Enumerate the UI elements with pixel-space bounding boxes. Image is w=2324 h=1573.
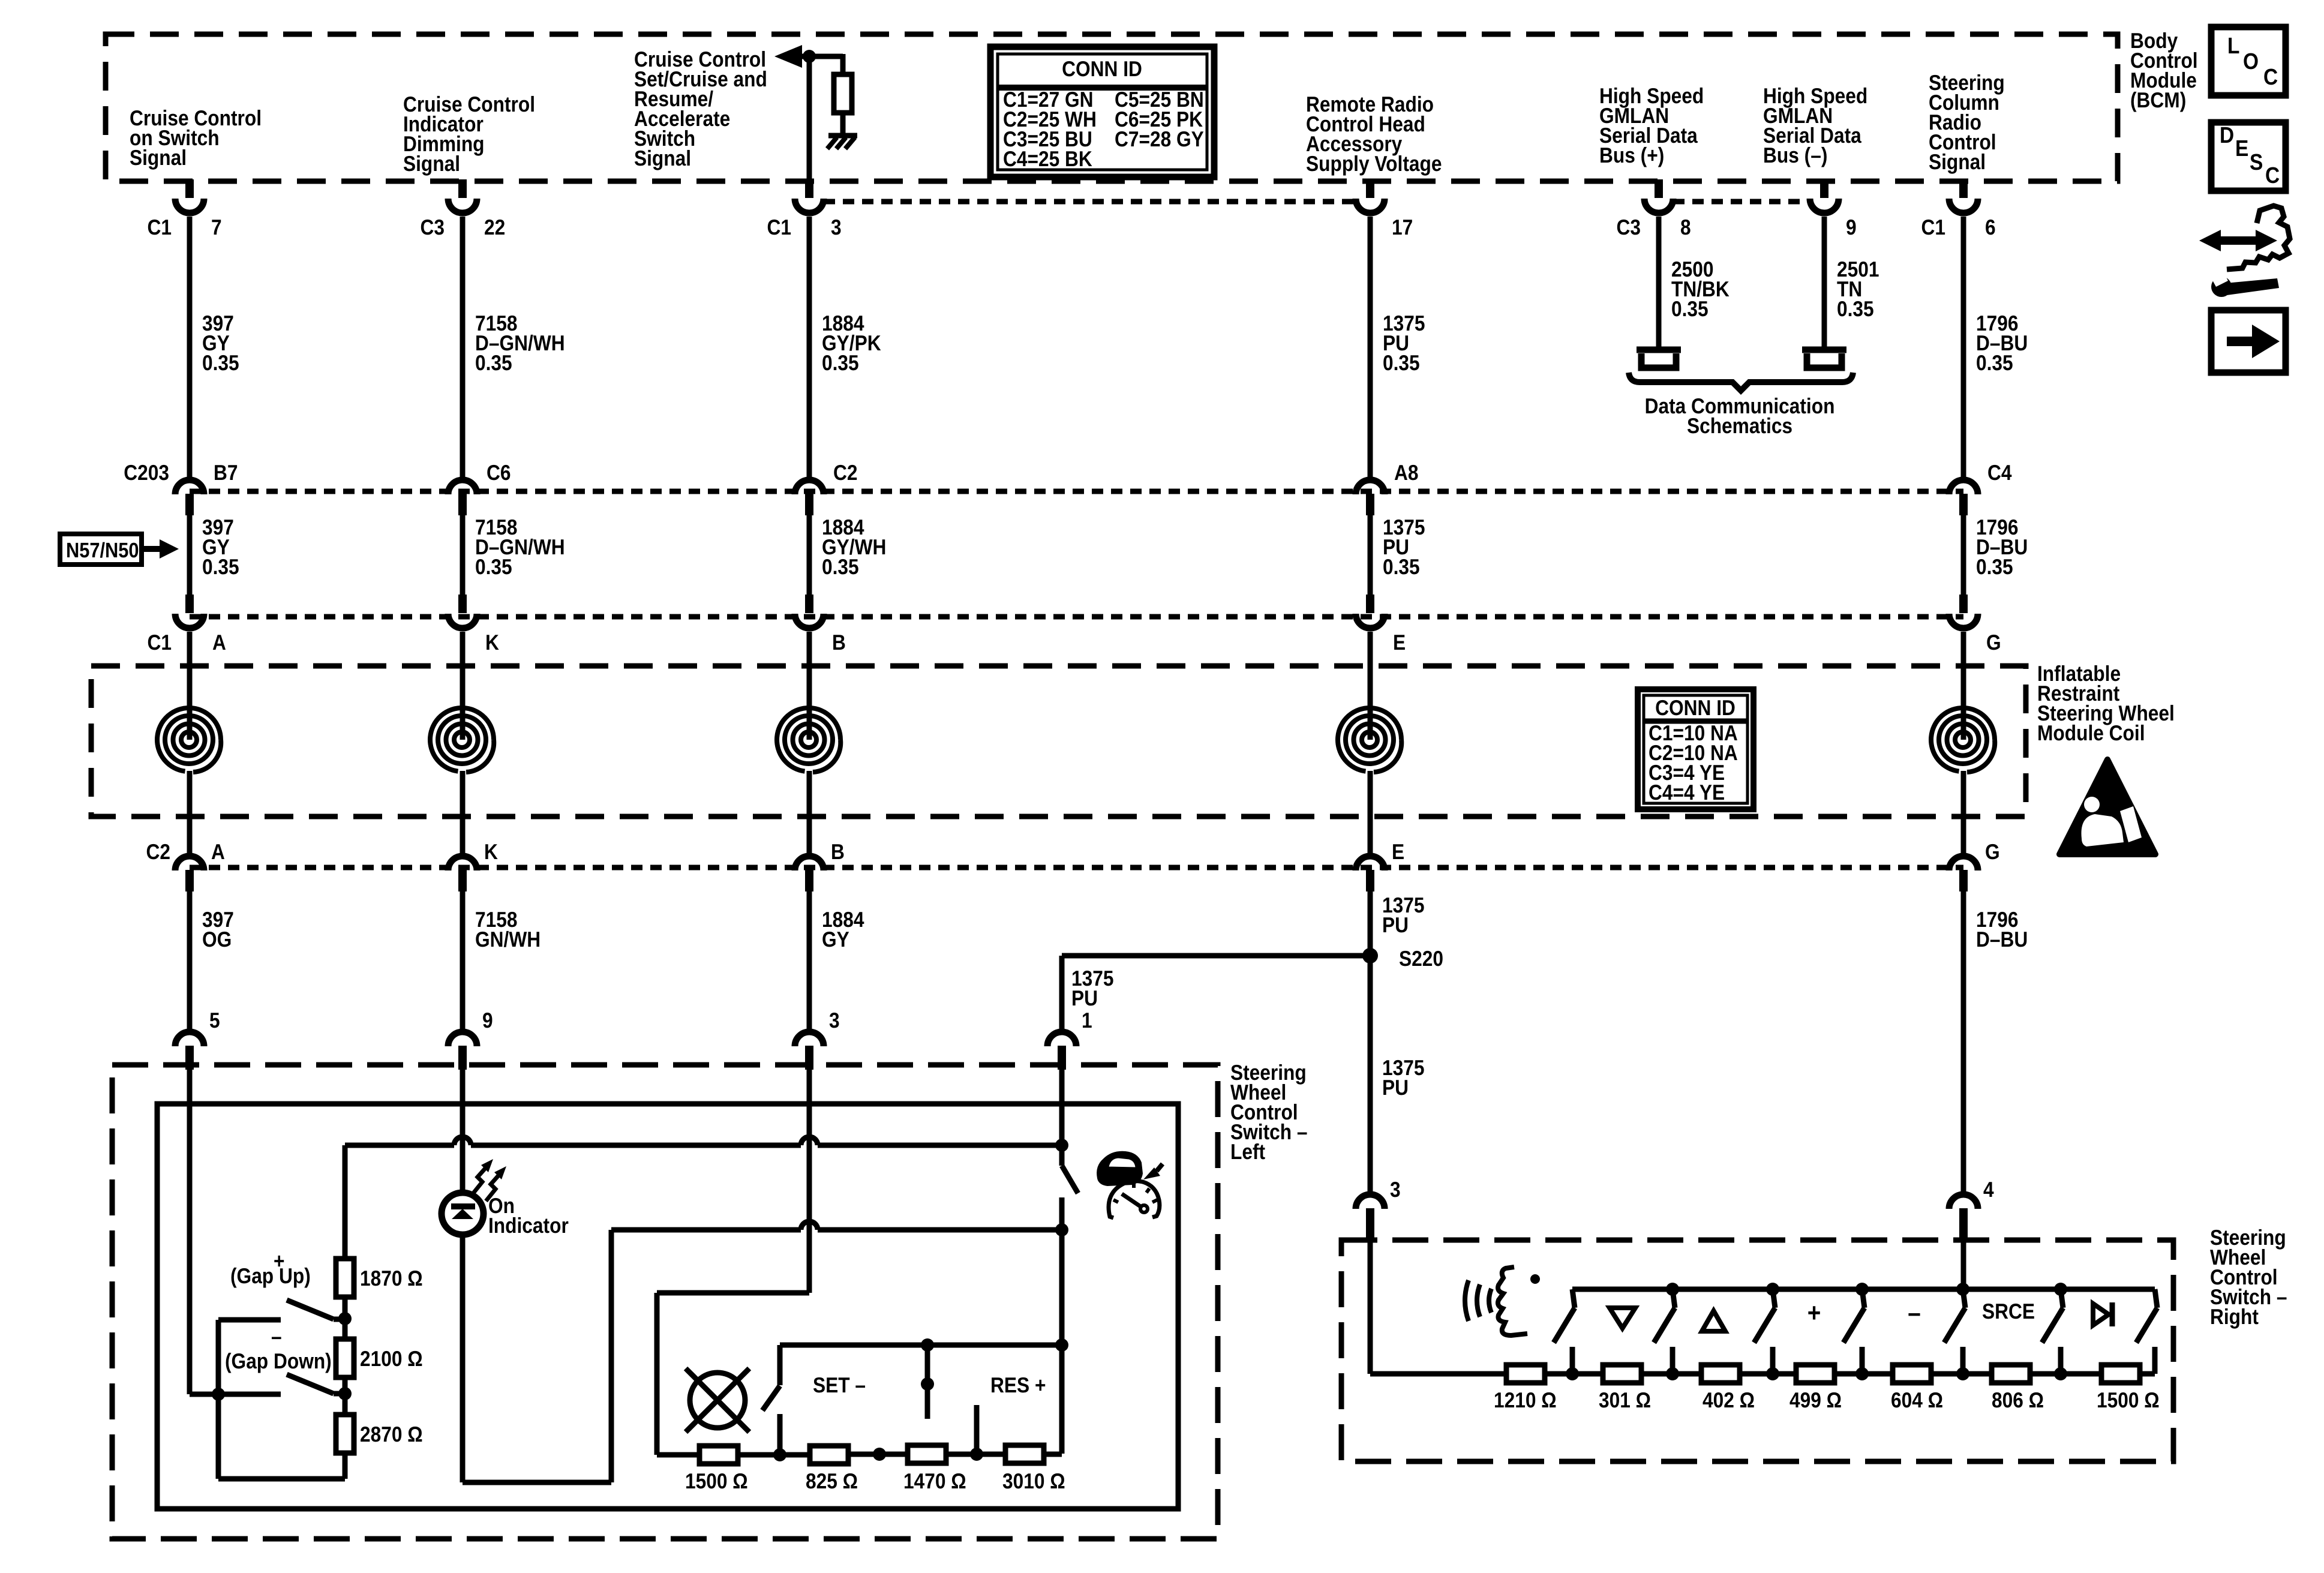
svg-text:9: 9 bbox=[1846, 215, 1857, 239]
connector row4 at x=1349 pin B bbox=[795, 839, 845, 891]
BCM label Remote Radio Control Head Accessory Supply Voltage bbox=[1306, 92, 1442, 176]
svg-text:PU: PU bbox=[1382, 912, 1409, 937]
CONN ID table (BCM) bbox=[990, 47, 1214, 177]
Steering Wheel Control Switch Left dashed box bbox=[112, 1065, 1218, 1539]
steering wheel coil spiral x=2284 bbox=[1338, 632, 1401, 853]
ground bbox=[827, 136, 857, 149]
gap up switch bbox=[218, 1300, 345, 1394]
svg-text:C3: C3 bbox=[1616, 215, 1641, 239]
branch wire S220 to pin1 bbox=[1062, 956, 1370, 1029]
label 2870 ohm bbox=[360, 1422, 423, 1446]
resistor 2100 ohm bbox=[336, 1339, 354, 1377]
label 2100 ohm bbox=[360, 1346, 423, 1371]
svg-text:806 Ω: 806 Ω bbox=[1992, 1388, 2044, 1412]
svg-text:GN/WH: GN/WH bbox=[475, 927, 541, 951]
arrow pointing to Cruise Control text bbox=[774, 45, 809, 68]
dotted harness line C203 row bbox=[190, 489, 1963, 494]
junction top bus right bbox=[1055, 1338, 1068, 1352]
svg-text:C203: C203 bbox=[124, 460, 169, 485]
wire segment C203 to C1 row x=3273 bbox=[1961, 515, 1966, 595]
svg-text:–: – bbox=[1908, 1298, 1921, 1328]
svg-text:O: O bbox=[2243, 49, 2259, 74]
wire LED down and to line C riser bbox=[463, 1230, 611, 1482]
N57/N50 callout box bbox=[60, 534, 142, 565]
splice S220 bbox=[1362, 946, 1443, 971]
svg-text:Indicator: Indicator bbox=[488, 1213, 569, 1238]
svg-text:D: D bbox=[2220, 123, 2234, 148]
off-page terminator x=3041 bbox=[1802, 350, 1846, 368]
wire label 1796 D-BU seg3 bbox=[1976, 907, 2028, 951]
svg-text:301 Ω: 301 Ω bbox=[1599, 1388, 1651, 1412]
svg-text:Left: Left bbox=[1230, 1139, 1265, 1164]
off-page terminator x=2765 bbox=[1637, 350, 1681, 368]
svg-text:1: 1 bbox=[1082, 1008, 1092, 1032]
wire label 1375 PU bbox=[1383, 311, 1425, 375]
wire segment row4 to switch x=771 bbox=[460, 891, 466, 1029]
cruise on/off switch blade bbox=[1062, 1145, 1078, 1193]
steering wheel coil spiral x=316 bbox=[157, 632, 221, 853]
wire segment row4 to switch x=316 bbox=[187, 891, 193, 1029]
res switch lower contact bbox=[974, 1405, 980, 1454]
svg-text:+: + bbox=[1807, 1298, 1821, 1328]
dotted connector line row4 bbox=[190, 865, 1963, 870]
svg-text:6: 6 bbox=[1985, 215, 1996, 239]
wire label 1796 D–BU bbox=[1976, 311, 2028, 375]
wire segment C203 to C1 row x=316 bbox=[187, 515, 193, 595]
set switch lower contact bbox=[777, 1414, 783, 1455]
junction line B at switch bbox=[1055, 1139, 1068, 1152]
switch blade 4 right box bbox=[1843, 1283, 1869, 1380]
resistor 1500 Ω right box bbox=[2101, 1365, 2140, 1383]
connector row3 at x=771 pin K bbox=[448, 595, 499, 655]
svg-text:825 Ω: 825 Ω bbox=[806, 1469, 858, 1493]
svg-text:2100 Ω: 2100 Ω bbox=[360, 1346, 423, 1371]
svg-text:8: 8 bbox=[1680, 215, 1691, 239]
svg-text:Right: Right bbox=[2210, 1304, 2259, 1329]
svg-text:C1: C1 bbox=[147, 630, 172, 655]
resistor 825 ohm bbox=[810, 1446, 848, 1464]
switch bottom bus right box bbox=[1487, 1371, 2155, 1377]
svg-text:C4=25 BK: C4=25 BK bbox=[1003, 146, 1092, 171]
connector row1 at x=1349 pin 3 bbox=[767, 179, 841, 239]
wire label 7158 D–GN/WH bbox=[475, 311, 565, 375]
LOC icon box bbox=[2211, 27, 2286, 95]
svg-text:0.35: 0.35 bbox=[475, 554, 512, 579]
wire pin3 to resistor ladder bbox=[1370, 1227, 1487, 1374]
label Data Communication Schematics bbox=[1645, 394, 1835, 438]
wire inside BCM to C1 pin 3 bbox=[807, 56, 812, 181]
switch blade 6 right box bbox=[2042, 1283, 2067, 1380]
CONN ID table (coil) bbox=[1638, 689, 1753, 809]
svg-text:C2: C2 bbox=[833, 460, 858, 485]
svg-text:C3: C3 bbox=[420, 215, 445, 239]
wire 1870 to 2100 bbox=[343, 1297, 348, 1339]
svg-text:(BCM): (BCM) bbox=[2130, 88, 2186, 112]
wire to pull-up resistor bbox=[809, 54, 843, 74]
label 806 Ω bbox=[1992, 1388, 2044, 1412]
svg-text:Signal: Signal bbox=[634, 146, 691, 170]
symbol seek down bbox=[1610, 1308, 1635, 1328]
GMLAN wire x=2765 bbox=[1656, 217, 1662, 350]
svg-text:9: 9 bbox=[482, 1008, 493, 1032]
Body Control Module (BCM) dashed box bbox=[106, 34, 2118, 181]
svg-text:0.35: 0.35 bbox=[1383, 554, 1420, 579]
label Steering Wheel Control Switch Right bbox=[2210, 1225, 2287, 1329]
svg-text:A: A bbox=[211, 839, 225, 864]
svg-text:5: 5 bbox=[209, 1008, 220, 1032]
junction gap down bbox=[338, 1387, 352, 1400]
label 1210 Ω bbox=[1494, 1388, 1557, 1412]
switch top bus right box bbox=[1572, 1287, 2155, 1292]
svg-text:D–BU: D–BU bbox=[1976, 927, 2028, 951]
svg-text:GY: GY bbox=[822, 927, 849, 951]
svg-text:0.35: 0.35 bbox=[822, 554, 859, 579]
resistor 499 Ω right box bbox=[1796, 1365, 1834, 1383]
cruise control icon speedometer bbox=[1109, 1181, 1160, 1218]
svg-text:S220: S220 bbox=[1399, 946, 1443, 971]
svg-text:RES +: RES + bbox=[990, 1373, 1046, 1397]
wire pin5 into box bbox=[190, 1067, 218, 1394]
wire 1500 to set lower bbox=[737, 1452, 780, 1458]
svg-text:C7=28 GY: C7=28 GY bbox=[1115, 127, 1204, 151]
svg-text:7: 7 bbox=[211, 215, 222, 239]
svg-text:A: A bbox=[212, 630, 226, 655]
svg-text:0.35: 0.35 bbox=[1837, 296, 1874, 321]
svg-text:0.35: 0.35 bbox=[1383, 350, 1420, 375]
centre common stub bbox=[925, 1345, 930, 1419]
svg-text:C2: C2 bbox=[146, 839, 170, 864]
junction line C at switch bbox=[1055, 1223, 1068, 1236]
wire label 397 GY bbox=[202, 311, 239, 375]
svg-text:PU: PU bbox=[1071, 986, 1098, 1010]
wire label 1796 D–BU seg2 bbox=[1976, 515, 2028, 579]
svg-text:3: 3 bbox=[829, 1008, 840, 1032]
svg-text:SET –: SET – bbox=[813, 1373, 866, 1397]
wire 1796 D-BU to right switch bbox=[1961, 891, 1966, 1191]
steering wheel coil spiral x=771 bbox=[430, 632, 494, 853]
junction res bus 1 bbox=[873, 1448, 886, 1461]
svg-text:0.35: 0.35 bbox=[202, 554, 239, 579]
connector row2 at x=771 pin C6 bbox=[448, 460, 511, 515]
wire label 7158 D–GN/WH seg2 bbox=[475, 515, 565, 579]
label 1500 Ω bbox=[2097, 1388, 2160, 1412]
label 1500 ohm bbox=[685, 1469, 748, 1493]
label 825 ohm bbox=[806, 1469, 858, 1493]
svg-text:3010 Ω: 3010 Ω bbox=[1002, 1469, 1065, 1493]
connector row2 at x=1349 pin C2 bbox=[795, 460, 858, 515]
connector row1 at x=3273 pin 6 bbox=[1921, 179, 1995, 239]
connector row1 at x=771 pin 22 bbox=[420, 179, 505, 239]
resistor 1210 Ω right box bbox=[1506, 1365, 1545, 1383]
resistor 2870 ohm bbox=[336, 1415, 354, 1453]
label 1470 ohm bbox=[903, 1469, 966, 1493]
label 402 Ω bbox=[1703, 1388, 1755, 1412]
svg-text:E: E bbox=[1393, 630, 1406, 655]
svg-text:3: 3 bbox=[831, 215, 842, 239]
svg-text:C6: C6 bbox=[487, 460, 511, 485]
wire S220 down to right box pin 3 bbox=[1368, 956, 1373, 1191]
arrow and wrench icon bbox=[2199, 206, 2290, 297]
junction line B at chain bbox=[0, 0, 1, 1]
resistor inside BCM bbox=[834, 74, 852, 113]
wire segment BCM to C203 row x=1349 bbox=[807, 217, 812, 477]
svg-text:E: E bbox=[2235, 136, 2248, 161]
wire label 1375 PU above S220 bbox=[1382, 893, 1424, 937]
svg-text:1500 Ω: 1500 Ω bbox=[2097, 1388, 2160, 1412]
switch assembly box left bbox=[157, 1104, 1178, 1509]
wire 3010 to riser bbox=[1044, 1452, 1062, 1457]
switch top bus bbox=[780, 1343, 1062, 1348]
svg-text:0.35: 0.35 bbox=[822, 350, 859, 375]
connector row1 at x=2765 pin 8 bbox=[1616, 179, 1691, 239]
svg-text:0.35: 0.35 bbox=[475, 350, 512, 375]
svg-text:–: – bbox=[271, 1324, 282, 1349]
svg-text:(Gap Down): (Gap Down) bbox=[225, 1349, 332, 1373]
wire line C to cruise switch bbox=[611, 1221, 1062, 1230]
wire segment BCM to C203 row x=2284 bbox=[1368, 217, 1373, 477]
svg-text:OG: OG bbox=[202, 927, 232, 951]
wire segment row4 to switch x=1349 bbox=[807, 891, 812, 1029]
svg-text:A8: A8 bbox=[1394, 460, 1419, 485]
connector row3 at x=3273 pin G bbox=[1949, 595, 2001, 655]
symbol volume minus bbox=[1908, 1298, 1921, 1328]
svg-text:G: G bbox=[1986, 630, 2001, 655]
svg-text:CONN ID: CONN ID bbox=[1062, 56, 1142, 81]
wire segment C203 to C1 row x=771 bbox=[460, 515, 466, 595]
label Steering Wheel Control Switch Left bbox=[1230, 1060, 1308, 1164]
resistor 1470 ohm bbox=[908, 1445, 946, 1463]
switch blade 3 right box bbox=[1754, 1283, 1779, 1380]
BCM label High Speed GMLAN Serial Data Bus (-) bbox=[1763, 83, 1867, 167]
wire line B resistor chain to switch bbox=[345, 1137, 1062, 1145]
switch blade 5 right box bbox=[1944, 1283, 1969, 1380]
wire 1375 PU from row4 to S220 bbox=[1368, 891, 1373, 956]
switch blade 7 right box bbox=[2136, 1289, 2157, 1374]
svg-text:C4: C4 bbox=[1987, 460, 2012, 485]
connector row3 at x=1349 pin B bbox=[795, 595, 846, 655]
svg-text:C: C bbox=[2265, 163, 2280, 188]
GMLAN wire x=3041 bbox=[1822, 217, 1827, 350]
wire 825-1470 bus bbox=[848, 1452, 907, 1457]
label RES + bbox=[990, 1373, 1046, 1397]
N57/N50 arrow bbox=[142, 539, 179, 559]
BCM label Cruise Control on Switch Signal bbox=[130, 106, 262, 170]
svg-text:1500 Ω: 1500 Ω bbox=[685, 1469, 748, 1493]
label 604 Ω bbox=[1891, 1388, 1943, 1412]
svg-text:N57/N50: N57/N50 bbox=[66, 539, 139, 562]
wire label 7158 GN/WH seg3 bbox=[475, 907, 541, 951]
wire segment C203 to C1 row x=1349 bbox=[807, 515, 812, 595]
svg-text:C4=4 YE: C4=4 YE bbox=[1649, 780, 1725, 804]
connector row3 at x=316 pin A bbox=[147, 595, 226, 655]
svg-text:4: 4 bbox=[1983, 1177, 1994, 1202]
svg-text:1210 Ω: 1210 Ω bbox=[1494, 1388, 1557, 1412]
svg-text:K: K bbox=[484, 839, 498, 864]
svg-text:0.35: 0.35 bbox=[202, 350, 239, 375]
svg-text:Supply Voltage: Supply Voltage bbox=[1306, 151, 1442, 176]
junction gap up bbox=[338, 1312, 352, 1325]
switch blade 1 right box bbox=[1554, 1289, 1579, 1380]
connector row2 at x=316 pin B7 bbox=[124, 460, 238, 515]
resistor 604 Ω right box bbox=[1893, 1365, 1931, 1383]
dotted connector line pin8 to pin9 bbox=[1673, 199, 1810, 205]
label SRCE bbox=[1982, 1299, 2035, 1323]
cruise control icon car bbox=[1097, 1152, 1163, 1185]
wire pin1 to cruise switch bbox=[1059, 1067, 1065, 1145]
svg-text:B: B bbox=[832, 630, 846, 655]
wire switch to resistor network riser bbox=[1059, 1230, 1065, 1454]
svg-text:Signal: Signal bbox=[1929, 149, 1986, 174]
wire label 2500 bbox=[1671, 257, 1730, 321]
svg-text:Bus (+): Bus (+) bbox=[1599, 143, 1664, 167]
switch blade 2 right box bbox=[1654, 1283, 1679, 1380]
connector row2 at x=3273 pin C4 bbox=[1949, 460, 2012, 515]
connector row4 at x=3273 pin G bbox=[1949, 839, 2000, 891]
wire 1500-825 bus bbox=[780, 1452, 809, 1458]
svg-text:C1: C1 bbox=[767, 215, 791, 239]
label + (Gap Up) bbox=[230, 1248, 311, 1288]
label 1870 ohm bbox=[360, 1266, 423, 1290]
svg-text:17: 17 bbox=[1392, 215, 1413, 239]
Steering Wheel Control Switch Right dashed box bbox=[1341, 1240, 2173, 1461]
svg-text:0.35: 0.35 bbox=[1976, 350, 2013, 375]
svg-text:C1: C1 bbox=[1921, 215, 1945, 239]
connector row1 at x=316 pin 7 bbox=[147, 179, 221, 239]
wire label 1375 PU below S220 bbox=[1382, 1055, 1424, 1100]
connector row4 at x=316 pin A bbox=[146, 839, 224, 891]
wire 2100 to 2870 bbox=[343, 1377, 348, 1415]
resistor 402 Ω right box bbox=[1701, 1365, 1740, 1383]
wire label 1884 GY/WH seg2 bbox=[822, 515, 886, 579]
svg-text:E: E bbox=[1392, 839, 1404, 864]
wire segment C203 to C1 row x=2284 bbox=[1368, 515, 1373, 595]
svg-text:(Gap Up): (Gap Up) bbox=[230, 1263, 311, 1288]
svg-text:L: L bbox=[2227, 34, 2239, 59]
label - (Gap Down) bbox=[225, 1324, 332, 1373]
wire segment BCM to C203 row x=3273 bbox=[1961, 217, 1966, 477]
svg-text:G: G bbox=[1985, 839, 2000, 864]
svg-text:402 Ω: 402 Ω bbox=[1703, 1388, 1755, 1412]
wire 1470-3010 bus bbox=[947, 1452, 1005, 1457]
wire label 1375 PU branch bbox=[1071, 966, 1113, 1010]
label Body Control Module (BCM) bbox=[2130, 28, 2198, 112]
connector row1 at x=3041 pin 9 bbox=[1810, 179, 1857, 239]
wire label 1884 GY seg3 bbox=[822, 907, 864, 951]
svg-text:C: C bbox=[2263, 65, 2278, 90]
svg-text:B7: B7 bbox=[214, 460, 238, 485]
connector pin 4 right switch bbox=[1949, 1177, 1994, 1241]
SRS warning triangle bbox=[2059, 760, 2155, 854]
label On Indicator bbox=[488, 1193, 569, 1238]
set switch blade bbox=[762, 1386, 780, 1410]
svg-text:Signal: Signal bbox=[130, 145, 187, 170]
resistor 301 Ω right box bbox=[1603, 1365, 1641, 1383]
label Inflatable Restraint Steering Wheel Module Coil bbox=[2037, 661, 2175, 745]
wire label 397 GY seg2 bbox=[202, 515, 239, 579]
steering wheel coil spiral x=3273 bbox=[1931, 632, 1995, 853]
resistor 1870 ohm bbox=[336, 1259, 354, 1297]
svg-text:SRCE: SRCE bbox=[1982, 1299, 2035, 1323]
illumination lamp icon bbox=[686, 1368, 749, 1432]
resistor 1500 ohm bbox=[699, 1446, 738, 1464]
BCM label High Speed GMLAN Serial Data Bus (+) bbox=[1599, 83, 1704, 167]
svg-text:Module Coil: Module Coil bbox=[2037, 721, 2145, 745]
label 301 Ω bbox=[1599, 1388, 1651, 1412]
connector row3 at x=2284 pin E bbox=[1356, 595, 1406, 655]
connector row4 at x=2284 pin E bbox=[1356, 839, 1404, 891]
symbol next track bbox=[2093, 1302, 2112, 1326]
BCM label Cruise Control Set/Cruise and Resume/Accelerate Switch Signal bbox=[634, 47, 767, 170]
voice recognition icon bbox=[1465, 1267, 1540, 1335]
connector row4 at x=771 pin K bbox=[448, 839, 498, 891]
wire label 2501 bbox=[1837, 257, 1879, 321]
cruise switch lower contact bbox=[1059, 1197, 1065, 1230]
symbol seek up bbox=[1702, 1311, 1725, 1331]
DESC icon box bbox=[2211, 122, 2286, 191]
svg-text:499 Ω: 499 Ω bbox=[1789, 1388, 1842, 1412]
junction centre stub bbox=[921, 1377, 934, 1391]
resistor 3010 ohm bbox=[1005, 1445, 1044, 1463]
wire segment BCM to C203 row x=771 bbox=[460, 217, 466, 477]
wire pin4 to switch bus bbox=[1961, 1227, 1966, 1289]
wire pin3 into box bbox=[657, 1067, 809, 1455]
BCM label Cruise Control Indicator Dimming Signal bbox=[403, 92, 535, 176]
connector row1 at x=2284 pin 17 bbox=[1356, 179, 1413, 239]
svg-text:0.35: 0.35 bbox=[1976, 554, 2013, 579]
resistor 806 Ω right box bbox=[1992, 1365, 2030, 1383]
junction res bus 2 bbox=[970, 1448, 983, 1461]
svg-text:Bus (–): Bus (–) bbox=[1763, 143, 1827, 167]
set switch upper contact bbox=[777, 1345, 783, 1385]
svg-text:0.35: 0.35 bbox=[1671, 296, 1709, 321]
svg-text:1870 Ω: 1870 Ω bbox=[360, 1266, 423, 1290]
gap down switch bbox=[218, 1374, 345, 1394]
svg-text:2870 Ω: 2870 Ω bbox=[360, 1422, 423, 1446]
wire label 1884 GY/PK bbox=[822, 311, 881, 375]
wire label 397 OG seg3 bbox=[202, 907, 234, 951]
svg-text:CONN ID: CONN ID bbox=[1655, 695, 1736, 720]
wire label 1375 PU seg2 bbox=[1383, 515, 1425, 579]
junction top bus centre bbox=[921, 1338, 934, 1352]
svg-text:PU: PU bbox=[1382, 1075, 1409, 1100]
node junction on set/cruise signal bbox=[803, 50, 816, 63]
svg-text:Schematics: Schematics bbox=[1687, 413, 1792, 438]
BCM label Steering Column Radio Control Signal bbox=[1929, 70, 2005, 174]
svg-text:22: 22 bbox=[484, 215, 505, 239]
junction set lower bbox=[773, 1448, 786, 1461]
gap chain bottom return bbox=[218, 1394, 345, 1479]
On Indicator LED bbox=[442, 1159, 506, 1235]
Inflatable Restraint Steering Wheel Module Coil dashed box bbox=[91, 666, 2026, 816]
wire segment BCM to C203 row x=316 bbox=[187, 217, 193, 477]
arrow icon box bbox=[2211, 310, 2286, 373]
junction gap down input bbox=[212, 1388, 225, 1401]
dotted connector line C1 pin3 to pin17 bbox=[824, 199, 1356, 205]
steering wheel coil spiral x=1349 bbox=[777, 632, 840, 853]
svg-text:Signal: Signal bbox=[403, 151, 460, 176]
label SET - bbox=[813, 1373, 866, 1397]
svg-text:S: S bbox=[2250, 150, 2263, 175]
connector pin 5 left switch bbox=[175, 1008, 220, 1070]
label 499 Ω bbox=[1789, 1388, 1842, 1412]
connector pin 3 left switch bbox=[795, 1008, 840, 1070]
gap chain top wire bbox=[343, 1145, 348, 1259]
dotted connector line row3 bbox=[190, 614, 1963, 620]
connector row2 at x=2284 pin A8 bbox=[1356, 460, 1419, 515]
connector pin 1 left switch bbox=[1047, 1008, 1092, 1070]
connector pin 3 right switch bbox=[1356, 1177, 1401, 1241]
wire pin9 to LED bbox=[460, 1067, 466, 1193]
